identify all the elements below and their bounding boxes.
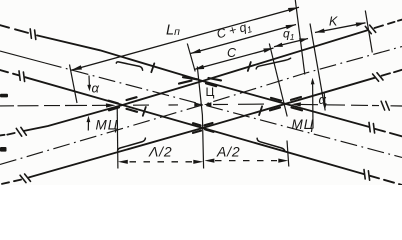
axis arrowhead pointing left at right acute frog	[291, 102, 301, 106]
rail U1 dashed left end	[0, 133, 15, 135]
alpha angle arrow left	[88, 76, 90, 87]
horizontal axis left segment (dashed)	[0, 104, 107, 107]
break mark rail D2 left	[19, 71, 20, 80]
break mark rail U2 right	[373, 74, 379, 81]
wing rails at right acute frog R	[270, 97, 302, 110]
extension line E2	[187, 44, 195, 72]
joint tick on rail U1	[248, 62, 251, 71]
rail D1 dashed right end	[375, 129, 402, 136]
arrowheads of dimension C+q1	[191, 49, 201, 54]
rail D2 dashed right end	[370, 176, 402, 185]
rail D2 dashed left end	[0, 70, 19, 75]
break mark rail U1 right	[365, 26, 371, 33]
svg-text:K: K	[329, 15, 338, 29]
joint tick on rail D2	[143, 107, 146, 116]
extension line E1 front joint left	[70, 65, 78, 104]
arrowheads of dimension A/2	[204, 159, 214, 163]
dimension line K	[315, 23, 366, 33]
dimension line q1	[274, 39, 308, 47]
page edge mark lower	[0, 147, 7, 152]
guard rail on D2 right of bottom frog	[257, 138, 285, 151]
rail D1 solid	[37, 35, 369, 127]
arrowheads of dimension C	[194, 65, 204, 70]
joint tick on rail D1	[151, 63, 154, 72]
rail D2 solid	[25, 77, 364, 174]
dimension line C+q1	[191, 25, 297, 54]
rail U1 solid	[24, 30, 368, 131]
guard rail on D1 left of top frog	[116, 62, 142, 70]
wing rails at left acute frog L	[109, 97, 138, 112]
page edge mark upper	[0, 94, 8, 98]
break mark rail D1 left	[30, 29, 31, 38]
wing rails at top obtuse frog T	[179, 77, 221, 86]
horizontal axis dashes between frogs	[133, 104, 264, 105]
break mark rail U2 left	[20, 175, 26, 182]
extension line E4	[310, 24, 325, 111]
centerline of ascending track (dash-dot)	[0, 47, 402, 165]
axis arrowhead pointing right at left acute frog	[106, 103, 116, 107]
dimension line C	[194, 48, 274, 70]
arrowheads of dimension K	[315, 29, 325, 33]
arrowheads of dimension Lp	[71, 65, 82, 70]
break mark rail D2 right	[364, 170, 365, 179]
extension line E7 below left frog	[116, 107, 119, 169]
svg-text:МЦ: МЦ	[292, 117, 315, 132]
guard rail on U2 left of bottom frog	[118, 138, 146, 150]
svg-text:Ц: Ц	[206, 85, 215, 99]
rail U2 dashed right end	[382, 70, 402, 76]
horizontal axis right segment (dashed)	[300, 104, 402, 106]
rail U2 solid	[29, 78, 375, 178]
alpha angle arrow right	[323, 94, 326, 105]
rail U1 dashed right end	[375, 20, 402, 28]
dimension line Lambda/2 (dashed)	[130, 161, 193, 163]
extension line E8 vertical centre line	[197, 67, 203, 169]
rail D1 dashed left end	[0, 25, 28, 33]
svg-text:Λ/2: Λ/2	[148, 144, 172, 160]
dimension line A/2 (dashed)	[215, 160, 277, 162]
svg-text:МЦ: МЦ	[96, 118, 119, 133]
svg-text:A/2: A/2	[216, 144, 240, 160]
guard rail on U1 right of top frog	[256, 58, 290, 69]
arrowheads of dimension q1	[274, 43, 283, 47]
svg-text:α: α	[319, 92, 327, 107]
break mark rail D1 right	[369, 122, 370, 131]
break mark on axis right	[381, 101, 385, 110]
MC arrow right	[312, 82, 314, 129]
rail U2 dashed left end	[2, 180, 21, 184]
centerline of descending track (dash-dot)	[0, 51, 45, 63]
extension line E9 below right frog	[287, 141, 289, 167]
break mark rail U1 left	[16, 128, 21, 136]
MC arrow left	[87, 120, 89, 131]
extension line E3	[295, 0, 305, 75]
arrowheads of dimension Lambda/2	[118, 160, 128, 164]
dimension line Lp	[71, 7, 299, 70]
svg-text:α: α	[92, 81, 100, 96]
svg-text:C: C	[227, 46, 237, 60]
extension line E6 through right frog	[269, 44, 287, 117]
joint tick on rail U2	[259, 106, 262, 115]
wing rails at bottom obtuse frog B	[193, 123, 214, 133]
extension line E5 rear joint right	[365, 11, 372, 53]
center point arrowheads meeting at crossing centre	[194, 102, 202, 106]
